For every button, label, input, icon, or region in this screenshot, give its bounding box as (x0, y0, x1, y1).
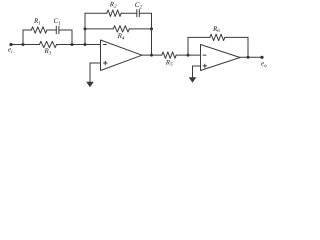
node: U2 output junction (247, 56, 250, 59)
U2 plus sign (203, 65, 207, 67)
wire: riser down to U2 output (247, 37, 249, 57)
svg-text:R3: R3 (44, 47, 52, 56)
svg-text:R4: R4 (117, 32, 125, 41)
wire: R3 to op-amp U1 inverting input (57, 44, 101, 46)
resistor R5 (162, 52, 176, 58)
wire: R4 to right feedback riser (129, 28, 151, 30)
wire: C2 to right feedback riser (139, 12, 151, 14)
svg-text:R2: R2 (109, 0, 117, 9)
wire: U2 non-inverting input stub (193, 65, 201, 67)
svg-text:R5: R5 (165, 58, 173, 67)
wire: C1 to right riser (59, 29, 72, 31)
op-amp U1 (101, 40, 143, 71)
U1 minus sign (103, 44, 106, 46)
resistor R6 (210, 34, 225, 40)
wire: R1 to C1 (47, 29, 56, 31)
wire: R6 branch left segment (188, 36, 210, 38)
resistor R4 (113, 26, 129, 32)
node: U1 output junction (150, 54, 153, 57)
wire: R2 to C2 (121, 12, 137, 14)
capacitor C2 (136, 10, 138, 17)
wire: input lead e_i to R3 (11, 44, 40, 46)
capacitor C1 (55, 26, 57, 33)
U2 minus sign (203, 54, 206, 56)
svg-text:C2: C2 (135, 1, 143, 10)
wire: riser from node A up to R1-C1 branch (22, 30, 24, 45)
op-amp U2 (201, 45, 241, 71)
ground (arrow) below U1 (86, 82, 94, 88)
wire: right feedback riser down to U1 output (151, 13, 153, 55)
svg-text:R6: R6 (212, 25, 220, 34)
node: U2 feedback junction (187, 54, 190, 57)
svg-text:R1: R1 (33, 17, 41, 26)
ground (arrow) below U2 (189, 77, 197, 83)
wire: feedback branch 2 left segment (85, 28, 113, 30)
node: R4 branch left junction (84, 27, 87, 30)
wire: ground lead of U2 (192, 66, 194, 78)
resistor R1 (31, 27, 47, 33)
node: R4 branch right junction (150, 27, 153, 30)
wire: U1 non-inverting input stub (90, 62, 101, 64)
wire: riser down to main line (71, 30, 73, 45)
wire: U1 output to R5 (142, 54, 162, 56)
wire: feedback riser at node B (84, 13, 86, 44)
resistor R3 (40, 41, 57, 47)
wire: R6 to right riser (225, 36, 248, 38)
wire: top branch left segment (23, 29, 31, 31)
wire: R5 to op-amp U2 inverting input (176, 54, 200, 56)
resistor R2 (107, 10, 121, 16)
svg-text:ei: ei (8, 46, 13, 55)
svg-text:eo: eo (261, 60, 267, 69)
wire: U2 output to terminal e_o (240, 56, 263, 58)
node B (84, 43, 87, 46)
wire: ground lead of U1 (89, 63, 91, 82)
node: output terminal (260, 56, 263, 59)
node A (22, 43, 25, 46)
node: parallel network right (71, 43, 74, 46)
wire: feedback riser for U2 (187, 37, 189, 55)
node: input terminal (9, 43, 12, 46)
svg-text:C1: C1 (54, 17, 61, 26)
wire: feedback branch 1 left segment (85, 12, 107, 14)
U1 plus sign (104, 62, 108, 64)
